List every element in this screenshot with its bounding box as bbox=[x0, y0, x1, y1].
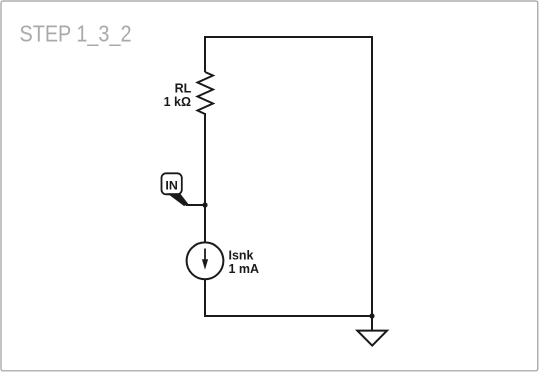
svg-text:IN: IN bbox=[165, 178, 177, 192]
junction node IN bbox=[202, 202, 207, 207]
svg-text:1 kΩ: 1 kΩ bbox=[164, 95, 191, 109]
wire left lower (205,279)-(205,316) bbox=[204, 279, 206, 317]
svg-text:RL: RL bbox=[175, 82, 192, 96]
wire bottom (205,316)-(372,316) bbox=[204, 315, 373, 317]
wire left middle (205,114)-(205,243) bbox=[204, 113, 206, 244]
wire right (372,37)-(372,316) bbox=[371, 36, 373, 316]
svg-text:Isnk: Isnk bbox=[229, 248, 254, 262]
wire ground stub (372,316)-(372,330.5) bbox=[371, 316, 373, 331]
resistor RL bbox=[198, 72, 214, 114]
wire IN leader to node bbox=[186, 204, 205, 206]
current source Isnk bbox=[187, 242, 224, 279]
ground bbox=[357, 331, 387, 346]
wire left upper (205,37)-(205,72) bbox=[204, 36, 206, 72]
IN leader flag bbox=[167, 193, 189, 206]
wire top (205,37)-(372,37) bbox=[204, 36, 373, 38]
svg-text:STEP 1_3_2: STEP 1_3_2 bbox=[20, 20, 132, 46]
node IN label bbox=[162, 173, 182, 194]
svg-text:1 mA: 1 mA bbox=[229, 262, 260, 276]
junction node right bottom bbox=[369, 313, 374, 318]
